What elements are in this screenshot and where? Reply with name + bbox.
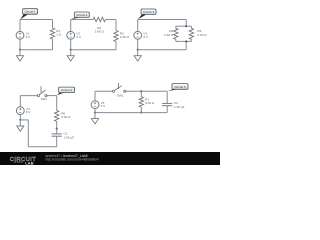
resistor R3 bbox=[114, 20, 130, 50]
wire top rail left circuit 4 bbox=[20, 95, 38, 97]
svg-text:1.05 μF: 1.05 μF bbox=[174, 105, 185, 109]
svg-text:SW2: SW2 bbox=[117, 93, 124, 97]
footer bar bbox=[0, 152, 220, 165]
switch SW1 bbox=[37, 86, 47, 101]
node circuit 3 ground junction bbox=[137, 49, 139, 51]
wire bottom rail circuit 1 bbox=[20, 49, 53, 51]
svg-text:2.66 Ω: 2.66 Ω bbox=[95, 29, 105, 33]
switch SW2 bbox=[112, 83, 126, 97]
wire V2 to node bbox=[70, 39, 72, 50]
voltage source V5 bbox=[91, 101, 106, 109]
voltage source V3 bbox=[134, 31, 149, 39]
svg-text:Circuit 1: Circuit 1 bbox=[25, 10, 36, 14]
node circuit 4 ground junction bbox=[19, 119, 21, 121]
wire top rail left circuit 2 bbox=[71, 19, 93, 21]
node circuit 2 ground junction bbox=[70, 49, 72, 51]
svg-text:SW1: SW1 bbox=[41, 97, 48, 101]
wire switch to corner circuit 4 bbox=[46, 95, 57, 97]
ground circuit 1 bbox=[16, 50, 23, 61]
resistor R6 bbox=[55, 96, 72, 129]
junction top bar circuit 3 bbox=[185, 25, 187, 27]
resistor R2 bbox=[93, 17, 106, 33]
wire node link circuit 4 bbox=[20, 119, 28, 121]
svg-text:Circuit 5: Circuit 5 bbox=[174, 85, 185, 89]
resistor R5 bbox=[189, 26, 207, 41]
wire tap top circuit 3 bbox=[185, 20, 187, 27]
capacitor C2 bbox=[162, 91, 185, 112]
wire top rail left circuit 5 bbox=[95, 90, 114, 92]
resistor R7 bbox=[139, 91, 155, 112]
svg-text:Circuit 2: Circuit 2 bbox=[76, 13, 87, 17]
label flag Circuit 1 bbox=[20, 9, 37, 20]
label flag Circuit 4 bbox=[57, 87, 75, 95]
label flag Circuit 3 bbox=[138, 9, 156, 19]
svg-text:1 Ω: 1 Ω bbox=[56, 33, 62, 37]
label flag Circuit 2 bbox=[71, 12, 89, 19]
voltage source V4 bbox=[16, 107, 31, 115]
wire bottom rail circuit 5 bbox=[95, 112, 167, 114]
junction R7 bottom circuit 5 bbox=[140, 112, 142, 114]
wire tap bottom circuit 3 bbox=[185, 41, 187, 49]
svg-text:2.66 Ω: 2.66 Ω bbox=[197, 33, 207, 37]
wire bottom rail circuit 4 bbox=[28, 146, 56, 148]
wire parallel bottom bar circuit 3 bbox=[176, 40, 192, 42]
svg-text:2.66 Ω: 2.66 Ω bbox=[164, 33, 174, 37]
wire left riser circuit 4 bbox=[27, 120, 29, 147]
resistor R4 bbox=[164, 26, 178, 41]
ground circuit 2 bbox=[67, 50, 74, 61]
wire left rail circuit 2 bbox=[70, 20, 72, 32]
wire parallel top bar circuit 3 bbox=[176, 25, 192, 27]
junction bottom bar circuit 3 bbox=[185, 40, 187, 42]
svg-text:6.00 Ω: 6.00 Ω bbox=[145, 101, 155, 105]
wire top rail right circuit 5 bbox=[125, 90, 167, 92]
junction R7 top circuit 5 bbox=[140, 90, 142, 92]
wire V4 bottom lead bbox=[19, 115, 21, 120]
wire V4 top lead bbox=[19, 96, 21, 107]
svg-text:http://circuitlab.com/c/uwu4k8: http://circuitlab.com/c/uwu4k8/lab8e4/ bbox=[46, 158, 99, 162]
voltage source V1 bbox=[16, 31, 31, 39]
wire top rail right circuit 2 bbox=[106, 19, 117, 21]
voltage source V2 bbox=[67, 31, 82, 39]
wire V5 top lead bbox=[94, 91, 96, 101]
wire top rail circuit 3 bbox=[138, 19, 187, 21]
node circuit 1 ground junction bbox=[19, 49, 21, 51]
node circuit 5 ground junction bbox=[94, 112, 96, 114]
wire V5 bottom lead bbox=[94, 109, 96, 113]
label flag Circuit 5 bbox=[168, 84, 189, 92]
wire V1 to node bbox=[19, 39, 21, 50]
svg-text:2.66 Ω: 2.66 Ω bbox=[120, 35, 130, 39]
capacitor C1 bbox=[52, 129, 75, 147]
ground circuit 3 bbox=[134, 50, 141, 61]
svg-text:6.00 Ω: 6.00 Ω bbox=[61, 115, 71, 119]
wire left rail circuit 1 bbox=[19, 20, 21, 32]
wire bottom rail circuit 3 bbox=[138, 49, 187, 51]
junction R6-C1 circuit 4 bbox=[56, 128, 58, 130]
ground circuit 5 bbox=[91, 113, 98, 124]
wire top rail circuit 1 bbox=[20, 19, 53, 21]
svg-text:Circuit 3: Circuit 3 bbox=[143, 10, 154, 14]
wire V3 to node bbox=[137, 39, 139, 50]
wire left rail circuit 3 bbox=[137, 20, 139, 32]
svg-text:Circuit 4: Circuit 4 bbox=[61, 88, 72, 92]
ground circuit 4 bbox=[17, 120, 24, 131]
resistor R1 bbox=[50, 20, 62, 50]
wire bottom rail circuit 2 bbox=[71, 49, 116, 51]
CircuitLab logo bbox=[10, 157, 36, 165]
svg-text:LAB: LAB bbox=[25, 160, 34, 165]
svg-text:1.05 μF: 1.05 μF bbox=[64, 135, 75, 139]
